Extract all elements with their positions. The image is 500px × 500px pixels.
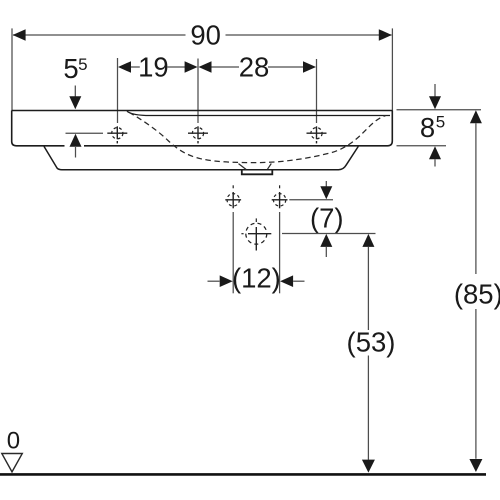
dimension 19/28 shared extension line bbox=[197, 59, 199, 124]
svg-text:19: 19 bbox=[138, 52, 169, 83]
dimension 12 left stub and arrow bbox=[208, 280, 220, 282]
dimension 5.5 up arrow bbox=[70, 134, 82, 147]
basin bottom edge right part and right edge bbox=[84, 111, 392, 146]
bowl hidden outline (dashed) bbox=[129, 112, 386, 162]
basin apron outline bbox=[44, 146, 358, 169]
deck inner edge bbox=[127, 111, 390, 115]
dimension 28 arrow right bbox=[303, 61, 316, 73]
floor line bbox=[0, 473, 486, 476]
svg-text:(53): (53) bbox=[347, 326, 396, 357]
svg-text:5: 5 bbox=[436, 112, 445, 131]
dimension 90 arrow right bbox=[379, 29, 392, 41]
svg-text:28: 28 bbox=[239, 52, 270, 83]
tap hole 3 bbox=[307, 126, 327, 143]
dimension 19 line bbox=[131, 66, 140, 68]
dimension 85 top arrow bbox=[470, 110, 482, 123]
tap hole 1 bbox=[107, 126, 127, 143]
dimension 28 extension line right bbox=[316, 59, 318, 123]
dimension 19 extension line left bbox=[117, 58, 119, 123]
dimension 28 line bbox=[212, 66, 240, 68]
svg-text:5: 5 bbox=[78, 55, 87, 74]
drain funnel left line bbox=[239, 164, 247, 170]
dimension 8.5 down arrow bbox=[434, 84, 436, 98]
dimension 8.5 up arrow bbox=[429, 146, 441, 159]
dimension 19 arrow right bbox=[185, 61, 198, 73]
svg-text:(85): (85) bbox=[454, 278, 500, 309]
dimension 5.5 down arrow bbox=[74, 86, 76, 98]
dimension 12 right arrow and stub bbox=[280, 275, 293, 287]
dimension 7 top reference line bbox=[289, 199, 333, 201]
dimension 90 extension line left bbox=[11, 28, 13, 110]
svg-text:8: 8 bbox=[420, 112, 435, 143]
dimension 85 line bbox=[475, 123, 477, 274]
basin left edge and bottom edge left part bbox=[12, 111, 65, 146]
dimension 7 down arrow bbox=[325, 181, 327, 187]
dimension 90 arrow left bbox=[13, 29, 26, 41]
dimension 28 arrow left bbox=[199, 61, 212, 73]
dimension 12 extension line right bbox=[279, 212, 281, 293]
datum triangle bbox=[2, 454, 23, 472]
dimension 12 extension line left bbox=[232, 212, 234, 293]
fixing hole left bbox=[225, 185, 241, 208]
overflow drain detail bbox=[242, 170, 272, 174]
svg-text:0: 0 bbox=[7, 428, 20, 455]
drain funnel right line bbox=[268, 164, 272, 170]
svg-text:(12): (12) bbox=[232, 263, 281, 294]
dimension 19 arrow left bbox=[118, 61, 131, 73]
tap hole 2 bbox=[188, 126, 208, 143]
dimension 90 extension line right bbox=[391, 28, 393, 110]
svg-text:90: 90 bbox=[190, 19, 221, 50]
dimension 85 bottom arrow bbox=[469, 459, 482, 472]
svg-text:5: 5 bbox=[63, 53, 78, 84]
svg-text:(7): (7) bbox=[310, 202, 344, 233]
dimension 53 line bbox=[362, 234, 374, 247]
basin top edge bbox=[12, 110, 393, 112]
tap hole centre line bbox=[66, 132, 104, 134]
dimension 53 bottom arrow bbox=[362, 460, 375, 473]
dimension 8.5 top extension line bbox=[397, 109, 482, 111]
dimension 7 bottom reference line bbox=[282, 233, 376, 235]
drain hole bbox=[241, 218, 271, 250]
dimension 90 line bbox=[13, 34, 186, 36]
dimension 8.5 bottom extension line bbox=[397, 145, 447, 147]
dimension 7 up arrow bbox=[320, 234, 332, 247]
fixing hole right bbox=[272, 185, 288, 208]
